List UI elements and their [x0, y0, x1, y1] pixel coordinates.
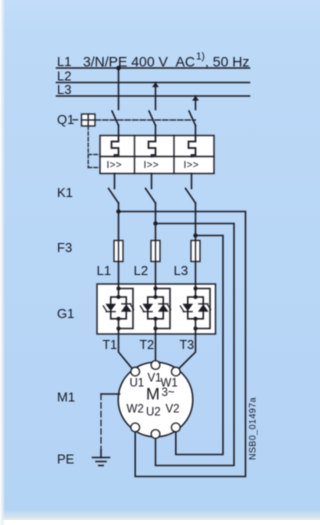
svg-text:K1: K1 — [57, 185, 73, 200]
svg-text:M1: M1 — [57, 390, 75, 405]
motor terminal W1 — [171, 367, 180, 376]
wire bypass phase 1 to motor — [119, 212, 246, 477]
motor terminal V1 — [151, 361, 160, 370]
breaker Q1 pole 3 contact — [189, 111, 196, 126]
ground symbol PE — [100, 450, 102, 458]
Q1 mechanical linkage horizontal — [95, 119, 196, 121]
thyristor pair phase 3 — [183, 304, 192, 310]
svg-text:U2: U2 — [146, 407, 161, 419]
bus line L2 — [57, 82, 250, 84]
node tap arrow on L3 — [192, 96, 199, 101]
svg-text:M: M — [146, 386, 160, 404]
svg-text:3/N/PE 400 V: 3/N/PE 400 V — [83, 54, 168, 70]
svg-text:Q1: Q1 — [57, 112, 74, 127]
svg-text:L1: L1 — [97, 263, 111, 278]
soft starter G1 box — [97, 284, 216, 334]
G1 thyristor module phase 1 — [103, 284, 133, 334]
wire release box to K1 pole 2 — [151, 174, 153, 189]
svg-text:V2: V2 — [166, 404, 180, 416]
Q1 manual operator handle — [82, 114, 96, 126]
wire M1 frame to PE — [101, 393, 120, 395]
Q1 linkage tick after label — [73, 119, 78, 121]
fuse F3 phase 3 — [195, 241, 197, 285]
bus line L1 — [57, 67, 250, 69]
svg-text:L3: L3 — [57, 82, 71, 97]
Q1 mechanical linkage to releases — [88, 126, 100, 168]
svg-text:T3: T3 — [180, 338, 195, 352]
wire bypass phase 2 to motor — [156, 224, 235, 466]
thyristor pair phase 2 — [143, 304, 152, 310]
wire phase 2 drop from L2 — [155, 83, 157, 110]
thermal release element phase 1 — [112, 136, 119, 157]
svg-text:AC: AC — [176, 54, 195, 70]
motor M1 body — [118, 362, 193, 437]
wire bypass phase 3 to motor — [176, 236, 223, 455]
svg-text:NSB0_01497a: NSB0_01497a — [248, 397, 258, 460]
contactor K1 pole 1 contact — [109, 189, 119, 204]
motor terminal U2 — [151, 430, 160, 439]
node junction phase 1 — [116, 209, 120, 213]
wire T2 to motor V1 — [155, 334, 157, 361]
svg-text:1): 1) — [196, 52, 205, 63]
svg-text:W1: W1 — [161, 378, 178, 390]
Q1 release box — [100, 136, 214, 174]
wire phase 3 drop from L3 — [195, 96, 197, 110]
svg-text:U1: U1 — [130, 378, 145, 390]
thermal release element phase 3 — [189, 136, 196, 157]
node junction phase 3 — [193, 233, 197, 237]
breaker Q1 pole 2 contact — [149, 111, 156, 126]
svg-text:L3: L3 — [174, 263, 188, 278]
contactor K1 pole 2 contact — [146, 189, 156, 204]
node tap on L1 — [116, 66, 121, 71]
breaker Q1 pole 1 contact — [112, 111, 119, 126]
wire phase 1 drop from L1 — [118, 68, 120, 110]
motor terminal W2 — [131, 423, 140, 432]
wire T3 to motor W1 — [179, 334, 196, 368]
fuse F3 phase 2 — [155, 241, 157, 285]
contactor K1 pole 3 contact — [186, 189, 196, 204]
svg-text:G1: G1 — [57, 306, 74, 321]
svg-text:V1: V1 — [148, 373, 162, 385]
fuse F3 phase 1 — [118, 241, 120, 285]
G1 thyristor module phase 2 — [140, 284, 170, 334]
svg-text:T2: T2 — [140, 338, 155, 352]
thyristor pair phase 1 — [106, 304, 115, 310]
svg-text:T1: T1 — [103, 338, 118, 352]
G1 thyristor module phase 3 — [180, 284, 210, 334]
svg-text:, 50 Hz: , 50 Hz — [205, 54, 249, 70]
svg-text:I>>: I>> — [144, 160, 159, 171]
wire T1 to motor U1 — [119, 334, 133, 368]
motor terminal V2 — [171, 423, 180, 432]
bus line L3 — [57, 95, 250, 97]
node junction phase 2 — [153, 221, 157, 225]
node tap arrow on L2 — [152, 82, 159, 87]
svg-text:L1: L1 — [57, 54, 71, 69]
svg-text:L2: L2 — [134, 263, 148, 278]
svg-text:I>>: I>> — [107, 160, 122, 171]
wire release box to K1 pole 1 — [114, 174, 116, 189]
svg-text:W2: W2 — [127, 404, 144, 416]
thermal release element phase 2 — [149, 136, 156, 157]
svg-text:F3: F3 — [57, 240, 72, 255]
svg-text:I>>: I>> — [184, 160, 199, 171]
motor terminal U1 — [131, 367, 140, 376]
wire release box to K1 pole 3 — [191, 174, 193, 189]
svg-text:PE: PE — [57, 452, 75, 467]
